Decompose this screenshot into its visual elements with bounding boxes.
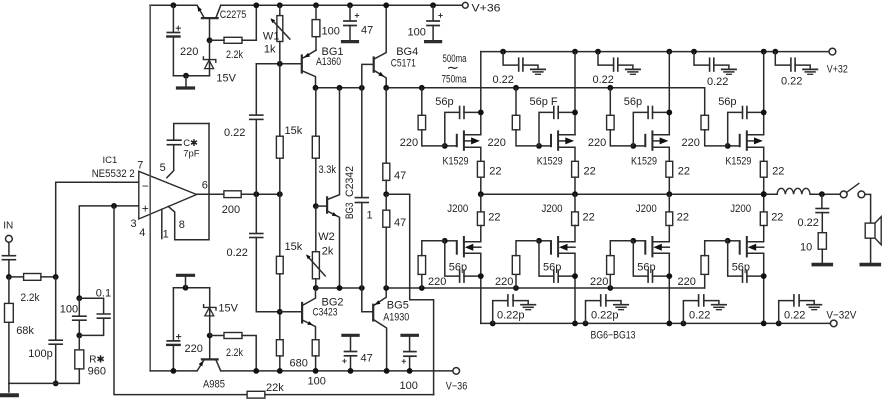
resistor 680 (BG2 base) [276, 340, 283, 374]
label C* 7pF [183, 138, 200, 160]
wire -32V supply rail [481, 322, 831, 324]
capacitor 0.22 comp upper [250, 64, 263, 234]
capacitor 0.22 bottom decoupling #4 [776, 295, 814, 326]
svg-text:2k: 2k [322, 246, 334, 258]
label 56p top #2 [530, 96, 558, 108]
capacitor 56p bottom #4 [728, 241, 767, 282]
resistor 22 top #4 [760, 161, 767, 197]
svg-text:8: 8 [179, 219, 185, 231]
capacitor 56p bottom #3 [633, 241, 672, 282]
label J200 #2 [542, 203, 563, 215]
label 15V bottom [218, 303, 238, 315]
svg-text:C✱: C✱ [183, 138, 198, 149]
svg-text:220: 220 [488, 137, 506, 149]
label J200 #1 [447, 203, 468, 215]
capacitor 100 (ground to V-36) [402, 335, 418, 374]
pin label 8 [179, 219, 185, 231]
wire top bias bus right segment [383, 85, 704, 91]
transistor A985 (series pass, bottom regulator) [197, 333, 221, 371]
wire 22k feedback line from pin3 [114, 206, 247, 395]
label 22 bottom #2 [583, 212, 595, 224]
capacitor 0.22 bottom decoupling #1 [490, 295, 528, 326]
svg-text:22: 22 [488, 212, 500, 224]
label 220 [180, 46, 198, 58]
resistor 220 top #4 [701, 88, 728, 146]
label 56p top #4 [718, 96, 736, 108]
svg-text:C2275: C2275 [220, 9, 247, 21]
pin label 7 [137, 160, 143, 172]
transistor BG3 C2342 [316, 88, 340, 288]
svg-text:56p: 56p [637, 261, 655, 273]
label 220 bottom #1 [428, 276, 446, 288]
svg-text:IN: IN [3, 220, 13, 231]
ground bottom decoupling #4 [807, 305, 821, 310]
wire top supply rail right segment to V+36 [221, 4, 463, 6]
MOSFET J200 #4 bottom cell [725, 194, 767, 326]
pin 7 and pin 4 supply line through op-amp [149, 5, 151, 371]
label 100 feedback [60, 303, 78, 315]
capacitor 56p bottom #2 [539, 241, 578, 282]
label IC1 NE5532 [92, 155, 135, 180]
resistor 15k lower [276, 256, 283, 339]
svg-text:100: 100 [60, 303, 78, 315]
resistor 47 driver upper [383, 88, 390, 197]
svg-text:−: − [142, 179, 149, 193]
svg-text:15V: 15V [216, 73, 236, 85]
label 500ma 750ma [442, 53, 468, 86]
svg-text:56p F: 56p F [530, 96, 558, 108]
svg-text:220: 220 [678, 276, 696, 288]
transistor BG4 C5171 [362, 2, 389, 87]
pin label 6 [202, 180, 208, 192]
svg-text:V+36: V+36 [472, 2, 501, 14]
label 47 lower [394, 217, 406, 229]
resistor 220 bottom #2 [512, 241, 539, 288]
wire bottom regulator top node [173, 285, 209, 291]
resistor 15k upper [276, 136, 283, 256]
capacitor 0.22 top decoupling #3 [691, 49, 729, 71]
svg-text:0.22p: 0.22p [591, 310, 619, 322]
pin label 4 [139, 227, 145, 239]
ground bottom decoupling #2 [614, 305, 628, 310]
svg-text:0.22: 0.22 [798, 217, 819, 229]
svg-text:1k: 1k [264, 43, 276, 55]
pin 2 inverting input wire [56, 182, 139, 277]
pin 5 lead [167, 145, 174, 178]
svg-text:56p: 56p [718, 96, 736, 108]
svg-text:47: 47 [361, 25, 373, 37]
resistor 220 top #3 [607, 88, 634, 146]
ground (top regulator) [178, 76, 194, 88]
label 0.22 top #1 [493, 74, 514, 86]
label 0.22 top #4 [781, 76, 802, 88]
svg-text:K1529: K1529 [631, 155, 657, 167]
ground zobel [813, 263, 831, 267]
svg-text:0.22: 0.22 [707, 76, 728, 88]
svg-text:K1529: K1529 [537, 155, 563, 167]
resistor 10 zobel [818, 233, 826, 263]
svg-text:22: 22 [772, 166, 784, 178]
svg-text:15V: 15V [218, 303, 238, 315]
capacitor 0.22 comp lower [250, 234, 280, 312]
label 680 [290, 358, 308, 370]
svg-text:C2342: C2342 [344, 166, 356, 197]
wire top supply rail left segment (+36V filtered) [150, 4, 197, 6]
MOSFET J200 #1 bottom cell [442, 194, 484, 323]
svg-text:A985: A985 [203, 379, 225, 391]
zener diode 15V (top) [203, 40, 215, 75]
label BG4 C5171 [391, 46, 418, 70]
ground bottom decoupling #1 [521, 305, 535, 310]
label W1 1k [263, 31, 280, 56]
svg-text:BG3: BG3 [344, 203, 356, 220]
label 22 bottom #1 [488, 212, 500, 224]
svg-text:3.3k: 3.3k [319, 164, 337, 176]
wire op-amp V- bottom rail [150, 370, 197, 372]
svg-text:NE5532 2: NE5532 2 [92, 168, 135, 180]
wire zener to ground node [173, 73, 209, 79]
svg-text:56p: 56p [449, 261, 467, 273]
label 15k lower [285, 241, 303, 253]
label 56p bottom #4 [732, 261, 750, 273]
label 15k upper [285, 125, 303, 137]
terminal V+32 [827, 48, 848, 75]
label 2.2k top [226, 49, 243, 61]
label BG5 A1930 [383, 300, 409, 324]
capacitor 56p top #3 [633, 107, 672, 146]
switch output [840, 184, 870, 224]
label 100 top cap [408, 27, 426, 39]
svg-text:3: 3 [131, 218, 137, 230]
label 220 bottom #3 [590, 276, 608, 288]
svg-text:0.22p: 0.22p [497, 310, 525, 322]
ground top decoupling #1 [531, 69, 545, 74]
svg-text:22: 22 [583, 212, 595, 224]
svg-text:BG5: BG5 [387, 300, 409, 312]
svg-text:1: 1 [163, 229, 169, 241]
svg-text:960: 960 [88, 365, 106, 377]
svg-text:IC1: IC1 [103, 155, 118, 166]
label 0.22 bottom #4 [784, 310, 805, 322]
label 15V top [216, 73, 236, 85]
ground (input) [1, 383, 17, 395]
capacitor 1 (between bias buses) [355, 88, 368, 288]
capacitor 100 (top, +36 to ground) [426, 2, 443, 41]
svg-text:100: 100 [308, 376, 326, 388]
svg-text:56p: 56p [435, 96, 453, 108]
svg-text:220: 220 [185, 343, 203, 355]
wire output rail [481, 193, 777, 195]
resistor 220 bottom #1 [418, 241, 445, 288]
label BG1 A1360 [316, 46, 344, 68]
resistor R* 960 [75, 335, 84, 383]
resistor 3.3k (BG3 base) [312, 88, 319, 209]
transistor BG1 A1360 [302, 50, 316, 88]
svg-text:6: 6 [202, 180, 208, 192]
pin label 5 [160, 162, 166, 174]
svg-text:15k: 15k [285, 125, 303, 137]
capacitor 0.22 bottom decoupling #3 [681, 295, 719, 326]
label 22 top #4 [772, 166, 784, 178]
capacitor 0.22 top decoupling #4 [772, 49, 810, 71]
label 56p top #1 [435, 96, 453, 108]
svg-text:J200: J200 [447, 203, 468, 215]
svg-text:680: 680 [290, 358, 308, 370]
label 56p bottom #2 [543, 261, 561, 273]
svg-text:47: 47 [361, 353, 373, 365]
svg-text:56p: 56p [543, 261, 561, 273]
pin label 1 [163, 229, 169, 241]
label 47 bottom cap [361, 353, 373, 365]
svg-text:7pF: 7pF [183, 148, 200, 159]
svg-text:220: 220 [400, 137, 418, 149]
label 0.22 zobel [798, 217, 819, 229]
svg-text:BG6−BG13: BG6−BG13 [591, 330, 636, 342]
MOSFET J200 #3 bottom cell [630, 194, 672, 326]
svg-text:J200: J200 [636, 203, 657, 215]
svg-text:0.22: 0.22 [227, 247, 248, 259]
label C2275 [220, 9, 247, 21]
label 22 bottom #4 [771, 212, 783, 224]
label 100 bottom cap [400, 380, 418, 392]
MOSFET K1529 #4 top cell [725, 49, 767, 162]
resistor 22 top #1 [477, 161, 484, 197]
ground bottom decoupling #3 [712, 305, 726, 310]
label K1529 #2 [537, 155, 563, 167]
wire bottom supply rail to V-36 [221, 370, 453, 372]
terminal V-32V [826, 309, 857, 326]
label 100p [28, 348, 52, 360]
resistor 200 (op-amp output) [197, 191, 283, 198]
wire driver midpoint jog to 22k riser [386, 194, 433, 394]
svg-text:220: 220 [590, 276, 608, 288]
ground (bottom regulator, inverted) [178, 275, 194, 287]
capacitor 0.22 top decoupling #2 [595, 49, 633, 71]
svg-text:0.22: 0.22 [224, 127, 245, 139]
label 0.22 comp lower [227, 247, 248, 259]
svg-text:220: 220 [180, 46, 198, 58]
label 22k [266, 382, 284, 394]
capacitor 0.22 top decoupling #1 [500, 49, 538, 71]
label 68k [16, 325, 34, 337]
resistor 22 top #3 [666, 161, 673, 197]
wire W1 base node row [256, 61, 302, 67]
terminal V-36 [446, 368, 468, 393]
label BG2 C3423 [313, 297, 344, 319]
resistor 220 top #2 [512, 88, 539, 146]
svg-text:0.22: 0.22 [784, 310, 805, 322]
label 56p top #3 [624, 96, 642, 108]
label 220 top #1 [400, 137, 418, 149]
svg-text:22: 22 [584, 166, 596, 178]
label 56p bottom #3 [637, 261, 655, 273]
svg-text:5: 5 [160, 162, 166, 174]
svg-text:0.22: 0.22 [493, 74, 514, 86]
svg-text:22: 22 [489, 166, 501, 178]
ground speaker [861, 263, 879, 267]
label 220 bottom #2 [495, 276, 513, 288]
svg-text:V−32V: V−32V [826, 309, 857, 321]
ground top decoupling #4 [803, 69, 817, 74]
capacitor 100 (feedback shunt) [73, 295, 86, 338]
svg-text:J200: J200 [730, 203, 751, 215]
transistor C2275 (series pass, top regulator) [197, 5, 220, 43]
svg-text:56p: 56p [732, 261, 750, 273]
capacitor 56p top #4 [728, 107, 767, 146]
capacitor 0.1 (parallel) [79, 298, 110, 335]
svg-text:56p: 56p [624, 96, 642, 108]
ground top decoupling #2 [626, 69, 640, 74]
svg-text:1: 1 [367, 210, 373, 222]
label J200 #3 [636, 203, 657, 215]
svg-text:R✱: R✱ [89, 354, 105, 365]
label 22 bottom #3 [677, 212, 689, 224]
transistor BG2 C3423 [280, 288, 316, 340]
resistor 220 bottom #4 [701, 241, 728, 288]
svg-text:2.2k: 2.2k [21, 292, 40, 304]
svg-text:47: 47 [394, 217, 406, 229]
svg-text:K1529: K1529 [443, 155, 469, 167]
svg-text:22: 22 [678, 166, 690, 178]
capacitor 0.22 zobel [816, 194, 828, 233]
capacitor input coupling [2, 242, 15, 280]
pin label 3 [131, 218, 137, 230]
capacitor 56p bottom #1 [445, 241, 484, 282]
capacitor 47 (ground to V-36) [342, 335, 358, 374]
wire +32V supply rail [481, 51, 829, 53]
label K1529 #3 [631, 155, 657, 167]
svg-text:15k: 15k [285, 241, 303, 253]
label R* 960 [88, 354, 106, 377]
label 100 BG2 [308, 376, 326, 388]
label 0.22 comp upper [224, 127, 245, 139]
wire bottom bias bus left segment [316, 285, 365, 291]
ground top decoupling #3 [722, 69, 736, 74]
svg-text:200: 200 [222, 204, 240, 216]
label 0.22 bottom #2 [591, 310, 619, 322]
pin 3 non-inverting input wire [79, 203, 139, 298]
resistor 22k (feedback) [247, 391, 434, 398]
svg-text:W1: W1 [263, 31, 280, 43]
label 47 top cap [361, 25, 373, 37]
label 220 top #2 [488, 137, 506, 149]
transistor BG5 A1930 [362, 288, 390, 374]
wire top bias bus left segment [313, 85, 365, 91]
label A985 [203, 379, 225, 391]
capacitor 220uF (top regulator filter) [167, 2, 181, 75]
label 0.1 [96, 287, 111, 299]
svg-text:100: 100 [400, 380, 418, 392]
svg-text:2.2k: 2.2k [226, 347, 243, 359]
label 100 BG1 [322, 25, 340, 37]
svg-text:BG4: BG4 [396, 46, 418, 58]
svg-text:0.22: 0.22 [689, 310, 710, 322]
capacitor 100p [49, 277, 62, 386]
label 2.2k input [21, 292, 40, 304]
resistor 22 top #2 [572, 161, 579, 197]
label 220 bottom [185, 343, 203, 355]
svg-text:7: 7 [137, 160, 143, 172]
label 10 zobel [800, 242, 812, 254]
label 2.2k bottom [226, 347, 243, 359]
svg-text:220: 220 [428, 276, 446, 288]
speaker [865, 217, 881, 263]
svg-text:W2: W2 [318, 231, 335, 243]
label K1529 #1 [443, 155, 469, 167]
resistor 68k (input shunt) [5, 277, 14, 384]
zener diode 15V (bottom) [204, 288, 216, 336]
label 200 [222, 204, 240, 216]
potentiometer W2 2k [306, 206, 325, 291]
wire comp box right and pin 8 return [168, 124, 209, 240]
MOSFET K1529 #1 top cell [442, 52, 481, 162]
svg-text:V+32: V+32 [827, 63, 848, 75]
MOSFET K1529 #3 top cell [630, 49, 672, 162]
resistor 100 (BG2 emitter) [312, 340, 319, 374]
label 0.22 bottom #1 [497, 310, 525, 322]
svg-text:K1529: K1529 [725, 155, 751, 167]
svg-text:V−36: V−36 [446, 380, 468, 392]
resistor 2.2k (top regulator base) [210, 2, 260, 43]
pin 1 stub [161, 209, 163, 238]
svg-text:0.1: 0.1 [96, 287, 111, 299]
label 22 top #2 [584, 166, 596, 178]
label W2 2k [318, 231, 335, 258]
svg-text:220: 220 [682, 137, 700, 149]
label 47 upper [394, 170, 406, 182]
label J200 #4 [730, 203, 751, 215]
svg-text:100: 100 [322, 25, 340, 37]
label 22 top #1 [489, 166, 501, 178]
svg-text:100p: 100p [28, 348, 52, 360]
input terminal IN [3, 220, 13, 242]
label 220 top #4 [682, 137, 700, 149]
resistor 2.2k (bottom regulator base) [210, 333, 259, 374]
svg-text:2.2k: 2.2k [226, 49, 243, 61]
label 3.3k [319, 164, 337, 176]
wire bottom bias bus right segment [383, 285, 704, 291]
label 1 [367, 210, 373, 222]
label 22 top #3 [678, 166, 690, 178]
svg-text:22: 22 [677, 212, 689, 224]
svg-text:22k: 22k [266, 382, 284, 394]
label K1529 #4 [725, 155, 751, 167]
resistor 220 top #1 [418, 88, 445, 146]
svg-text:22: 22 [771, 212, 783, 224]
potentiometer W1 1k [270, 2, 290, 136]
svg-text:47: 47 [394, 170, 406, 182]
svg-text:68k: 68k [16, 325, 34, 337]
capacitor 220uF (bottom regulator filter) [167, 288, 181, 374]
svg-text:A1360: A1360 [316, 56, 341, 68]
svg-text:J200: J200 [542, 203, 563, 215]
label BG6-BG13 [591, 330, 636, 342]
label 56p bottom #1 [449, 261, 467, 273]
capacitor 56p top #1 [445, 107, 484, 146]
capacitor 0.22 bottom decoupling #2 [583, 295, 621, 326]
svg-text:220: 220 [588, 137, 606, 149]
svg-text:4: 4 [139, 227, 145, 239]
svg-text:10: 10 [800, 242, 812, 254]
label 220 bottom #4 [678, 276, 696, 288]
op-amp U1 NE5532 triangle [139, 171, 197, 219]
resistor 220 bottom #3 [607, 241, 634, 288]
capacitor 56p top #2 [539, 107, 578, 146]
resistor 2.2k (input series) [9, 274, 59, 281]
svg-text:100: 100 [408, 27, 426, 39]
svg-text:A1930: A1930 [383, 312, 409, 324]
terminal V+36 [462, 2, 500, 14]
